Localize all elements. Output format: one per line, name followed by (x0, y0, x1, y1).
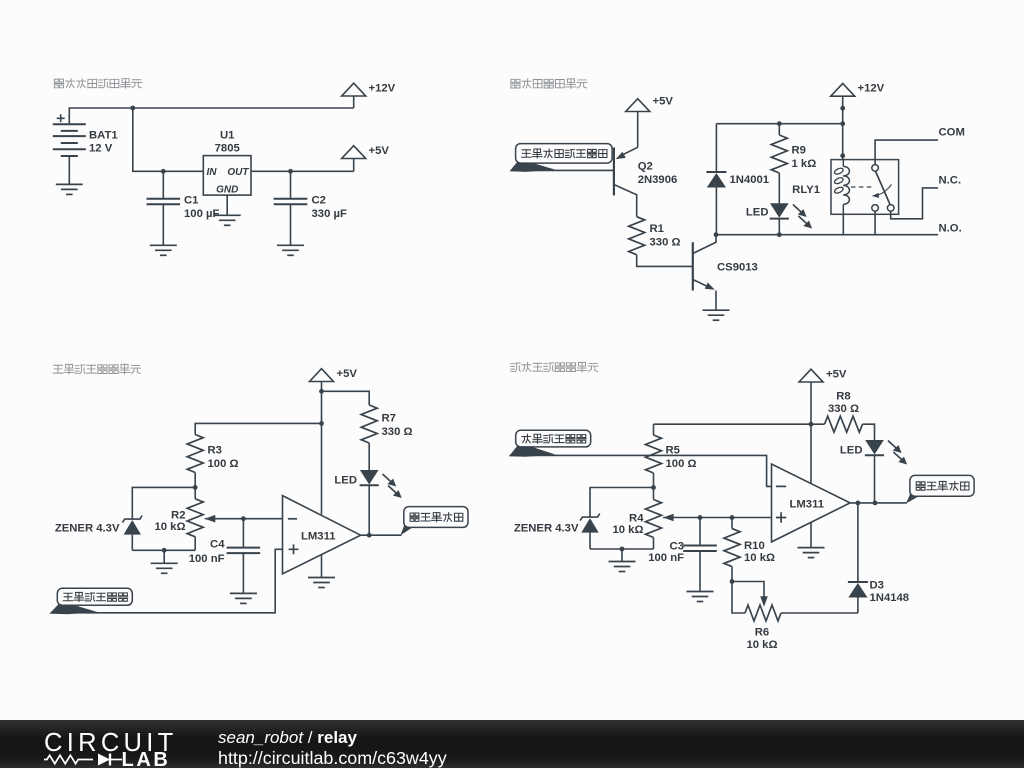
potentiometer R6 10k (760, 596, 768, 607)
diode 1N4001 (715, 124, 717, 172)
svg-text:R9: R9 (792, 145, 806, 157)
section title: 油門訊號檢知單元 (53, 365, 63, 373)
zener ZENER 4.3V (section4) (580, 514, 600, 521)
svg-text:IN: IN (207, 167, 218, 178)
power flag +5V (section2) (626, 99, 650, 112)
wire top rail (section4) (654, 423, 825, 425)
svg-text:10 kΩ: 10 kΩ (744, 552, 775, 564)
node +12V stub (840, 106, 845, 111)
svg-text:ZENER 4.3V: ZENER 4.3V (514, 523, 579, 535)
ground below CS9013 (703, 310, 730, 320)
node C3 top (698, 515, 703, 520)
CircuitLab logo (0, 720, 200, 768)
power flag +12V (section1) (342, 83, 366, 96)
svg-text:1N4001: 1N4001 (730, 174, 770, 186)
node C2 top (288, 169, 293, 174)
node top rail +12V (840, 121, 845, 126)
node +5V rail junction (809, 422, 814, 427)
svg-text:330 Ω: 330 Ω (382, 426, 413, 438)
potentiometer R4 10k (653, 488, 655, 500)
resistor R9 1k (778, 124, 780, 135)
power flag +12V (section2) (831, 83, 855, 96)
callout 到微控制器 (section3) (401, 521, 434, 535)
wire coil bottom (842, 214, 844, 235)
svg-text:R1: R1 (650, 223, 664, 235)
svg-text:LED: LED (746, 207, 769, 219)
svg-text:10 kΩ: 10 kΩ (612, 524, 643, 536)
svg-text:C4: C4 (210, 539, 225, 551)
svg-text:330 Ω: 330 Ω (650, 237, 681, 249)
wire junction to ground (163, 550, 165, 563)
LED (engine indicator) (865, 440, 884, 455)
svg-text:N.O.: N.O. (939, 223, 962, 235)
svg-text:LM311: LM311 (301, 531, 336, 543)
callout 到微控制器 (section4) (906, 490, 940, 504)
node D3 junction (856, 501, 861, 506)
wire U1 GND pin (226, 195, 228, 215)
svg-text:RLY1: RLY1 (792, 184, 820, 196)
svg-text:ZENER 4.3V: ZENER 4.3V (55, 523, 120, 535)
wire input signal (section4) (510, 455, 772, 486)
wire N.C. (891, 188, 938, 219)
capacitor C3 100nF (699, 518, 701, 546)
wire LM311 output (section3) (361, 534, 402, 536)
wire from rail down to IN (133, 108, 204, 171)
diode D3 1N4148 (857, 503, 859, 582)
ground below zener (section3) (151, 563, 178, 573)
wire bottom rail relay section (716, 234, 938, 236)
svg-text:D3: D3 (870, 580, 884, 592)
resistor R7 330 (361, 405, 377, 443)
relay coil (842, 160, 844, 167)
svg-text:BAT1: BAT1 (89, 130, 118, 142)
wire COM (875, 140, 938, 165)
svg-text:R3: R3 (208, 445, 222, 457)
svg-text:CS9013: CS9013 (717, 262, 758, 274)
wire LM311 V- to ground (section3) (321, 555, 323, 578)
node C1 top (161, 169, 166, 174)
svg-text:+12V: +12V (858, 83, 885, 95)
wire battery top rail (69, 108, 353, 124)
ground below U1 (214, 215, 241, 225)
transistor CS9013 NPN (692, 242, 694, 290)
wire OUT rail (251, 170, 354, 172)
node collector CS9013 (714, 232, 719, 237)
callout 微控制器訊號輸出 (510, 159, 556, 172)
svg-text:R7: R7 (382, 413, 396, 425)
svg-text:10 kΩ: 10 kΩ (154, 521, 185, 533)
svg-text:1N4148: 1N4148 (870, 592, 910, 604)
capacitor C4 100nF (242, 519, 244, 548)
zener ZENER 4.3V (section3) (123, 516, 143, 523)
svg-text:+5V: +5V (337, 368, 358, 380)
svg-text:12 V: 12 V (89, 143, 113, 155)
regulator U1 7805 (203, 156, 251, 196)
power flag +5V (section3) (310, 369, 334, 382)
wire top rail relay section (716, 123, 842, 125)
svg-text:100 Ω: 100 Ω (208, 458, 239, 470)
ground below C2 (277, 245, 304, 255)
node junction at battery rail (130, 106, 135, 111)
wire LM311 V- to ground (section4) (810, 523, 812, 548)
node C4 top (241, 516, 246, 521)
resistor R8 330 (825, 416, 863, 432)
svg-text:C1: C1 (184, 195, 198, 207)
svg-text:C3: C3 (670, 541, 684, 553)
svg-text:7805: 7805 (215, 143, 240, 155)
wire to zener Z2 (590, 488, 654, 518)
svg-text:+5V: +5V (826, 369, 847, 381)
callout 電壓訊號輸入 (509, 443, 556, 457)
battery BAT1 12V (57, 114, 65, 122)
svg-text:10 kΩ: 10 kΩ (746, 639, 777, 651)
wire LM311 output (section4) (850, 502, 907, 504)
svg-text:100 µF: 100 µF (184, 208, 219, 220)
wire to zener Z1 (132, 487, 195, 519)
capacitor C1 100uF (162, 171, 164, 199)
resistor R5 100 (653, 424, 655, 435)
wire base of Q2 (511, 169, 614, 171)
transistor Q2 2N3906 PNP (621, 147, 638, 156)
section title: 繼電器輸出單元 (511, 79, 521, 88)
svg-text:R6: R6 (755, 627, 769, 639)
relay NO contact (872, 205, 879, 212)
svg-text:R10: R10 (744, 540, 765, 552)
node R10 top (730, 515, 735, 520)
node LED bottom (777, 232, 782, 237)
relay NC contact (887, 205, 894, 212)
svg-text:100 nF: 100 nF (648, 552, 684, 564)
svg-text:LAB: LAB (122, 749, 171, 768)
wire to R3 (195, 423, 321, 434)
relay RLY1 box (831, 160, 899, 215)
potentiometer R2 10k (187, 499, 203, 537)
svg-text:100 Ω: 100 Ω (666, 458, 697, 470)
node relay coil top (840, 153, 845, 158)
capacitor C2 330uF (290, 171, 292, 199)
section title: 引擎發動檢知單元 (511, 363, 521, 372)
svg-text:C2: C2 (312, 195, 326, 207)
wire zener bottom to R2 bottom (132, 549, 195, 551)
resistor R3 100 (187, 435, 203, 473)
svg-text:+12V: +12V (369, 83, 396, 95)
node R10 bottom (730, 579, 735, 584)
svg-text:100 nF: 100 nF (189, 553, 225, 565)
svg-text:COM: COM (939, 127, 965, 139)
ground below C1 (150, 245, 177, 255)
svg-text:R4: R4 (629, 513, 644, 525)
ground below C3 (687, 592, 714, 602)
ground below zener (section4) (609, 562, 636, 572)
wire zener bottom to R4 bottom (590, 548, 654, 550)
svg-text:R2: R2 (171, 510, 185, 522)
power flag +5V (section1) (342, 146, 366, 159)
LED (throttle indicator) (360, 470, 379, 485)
wire R10 bottom to R6 wiper (732, 582, 764, 599)
node R7 branch (319, 389, 324, 394)
section title: 系統電力供給單元 (54, 79, 64, 88)
wire to R7 (322, 391, 370, 405)
resistor R10 10k (731, 518, 733, 529)
node ground junction (section4) (620, 547, 625, 552)
footer author / title (218, 728, 447, 769)
svg-text:+5V: +5V (369, 145, 390, 157)
svg-text:Q2: Q2 (638, 161, 653, 173)
node R5/R4 junction (651, 485, 656, 490)
svg-text:LED: LED (840, 445, 863, 457)
svg-text:LED: LED (334, 475, 357, 487)
svg-text:U1: U1 (220, 130, 234, 142)
node R3/R2 junction (193, 485, 198, 490)
svg-text:N.C.: N.C. (939, 175, 962, 187)
node LED junction (section4) (873, 501, 878, 506)
svg-text:330 µF: 330 µF (312, 208, 347, 220)
svg-text:OUT: OUT (227, 167, 249, 178)
wire N.O. (874, 211, 876, 235)
svg-text:2N3906: 2N3906 (638, 174, 678, 186)
op-amp U2 LM311 (section3) (283, 496, 361, 574)
ground below LM311 (section3) (308, 578, 335, 588)
callout 油門訊號輸入 (50, 601, 98, 614)
power flag +5V (section4) (799, 369, 823, 382)
ground below LM311 (section4) (798, 548, 825, 558)
resistor R1 330 (629, 217, 645, 255)
relay pole contact (872, 165, 879, 172)
node ground junction (section3) (162, 548, 167, 553)
ground below C4 (230, 593, 257, 603)
svg-text:+5V: +5V (653, 96, 674, 108)
svg-text:330 Ω: 330 Ω (828, 403, 859, 415)
LED (relay indicator) (770, 203, 789, 218)
svg-text:LM311: LM311 (790, 499, 825, 511)
svg-text:1 kΩ: 1 kΩ (792, 158, 817, 170)
wire junction to ground (section4) (621, 549, 623, 562)
ground below battery (56, 184, 83, 194)
node R3 branch (319, 421, 324, 426)
node output/LED junction (section3) (367, 533, 372, 538)
relay switch blade (875, 171, 890, 205)
wire + input (section3) (51, 549, 283, 613)
svg-text:GND: GND (216, 185, 238, 196)
wire battery to ground (68, 156, 70, 184)
node R9 top (777, 121, 782, 126)
op-amp U3 LM311 (section4) (772, 464, 851, 542)
relay dashed link (851, 186, 873, 188)
svg-text:R8: R8 (836, 391, 850, 403)
